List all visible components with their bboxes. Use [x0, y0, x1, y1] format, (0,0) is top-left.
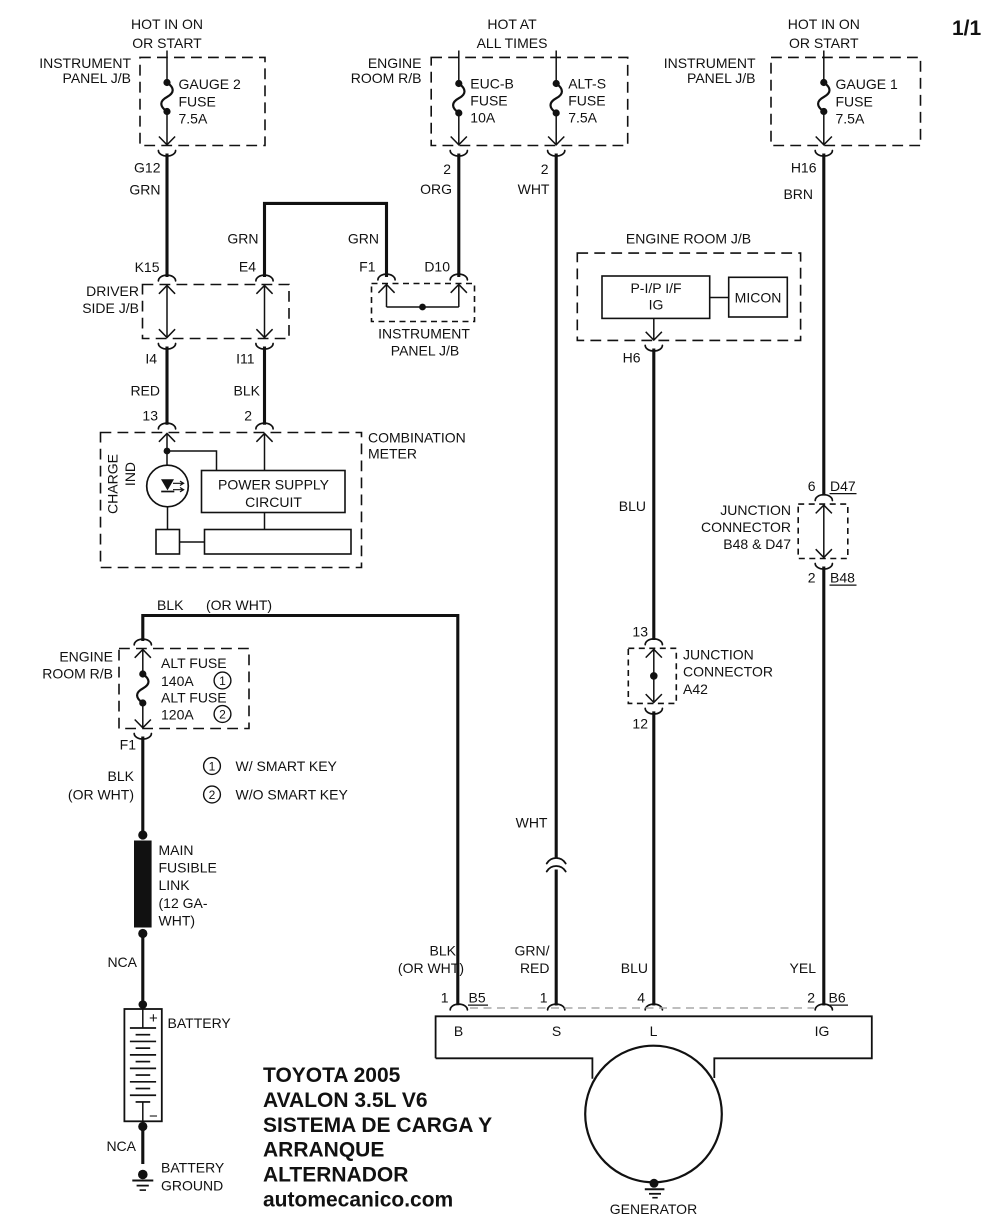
svg-text:COMBINATION: COMBINATION — [368, 430, 466, 446]
connector pin 2 B6 — [815, 1004, 832, 1010]
meter long block — [205, 530, 352, 555]
svg-text:1: 1 — [209, 759, 216, 773]
svg-text:RED: RED — [520, 960, 550, 976]
wire NCA battery to ground — [141, 1129, 144, 1164]
meter input arrow (pin 13) — [166, 434, 168, 466]
svg-text:120A: 120A — [161, 707, 194, 723]
connector pin 6 D47 — [815, 495, 832, 501]
connector G12 — [158, 151, 175, 157]
svg-text:12: 12 — [632, 716, 648, 732]
svg-text:6: 6 — [808, 478, 816, 494]
svg-text:B5: B5 — [469, 990, 486, 1006]
connector pin 2 (EUC-B) — [450, 151, 467, 157]
svg-text:HOT IN ON: HOT IN ON — [131, 16, 203, 32]
svg-text:1: 1 — [540, 990, 548, 1006]
svg-text:2: 2 — [209, 788, 216, 802]
connector boundary (gray dashed) — [470, 1007, 814, 1009]
wire GRN/RED to generator S — [555, 870, 558, 1006]
connector H16 — [815, 151, 832, 157]
svg-text:WHT: WHT — [516, 815, 548, 831]
battery ground — [138, 1170, 148, 1180]
svg-text:DRIVER: DRIVER — [86, 283, 139, 299]
svg-text:GRN: GRN — [348, 230, 379, 246]
svg-text:1: 1 — [219, 674, 226, 688]
connector pin 13 A42 — [645, 639, 662, 645]
block MICON — [729, 277, 788, 317]
connector pin 2 (meter) — [256, 423, 273, 429]
wire power supply to bottom block — [264, 513, 266, 530]
svg-text:13: 13 — [632, 624, 648, 640]
svg-text:PANEL J/B: PANEL J/B — [63, 70, 131, 86]
svg-text:GROUND: GROUND — [161, 1178, 223, 1194]
connector pin 12 A42 — [645, 708, 662, 714]
svg-text:MAIN: MAIN — [159, 842, 194, 858]
fuse GAUGE 2 7.5A — [166, 51, 168, 81]
svg-text:I11: I11 — [236, 351, 255, 367]
connector F1 (ALT fuse bottom) — [134, 734, 151, 740]
wire between P-I/P and MICON — [710, 297, 729, 299]
wire IG output to H6 — [653, 318, 655, 340]
svg-text:IND: IND — [122, 462, 138, 486]
svg-text:2: 2 — [219, 707, 226, 721]
wire BLK I11 to combination meter — [263, 347, 266, 425]
svg-text:METER: METER — [368, 446, 417, 462]
svg-text:JUNCTION: JUNCTION — [683, 647, 754, 663]
svg-text:NCA: NCA — [106, 1138, 136, 1154]
svg-text:B6: B6 — [829, 990, 846, 1006]
wire BRN H16 to D47 — [822, 154, 825, 496]
legend 1 W/ SMART KEY — [204, 758, 221, 775]
battery — [139, 1000, 148, 1009]
svg-text:INSTRUMENT: INSTRUMENT — [378, 326, 470, 342]
svg-text:MICON: MICON — [735, 290, 782, 306]
svg-text:E4: E4 — [239, 259, 256, 275]
instrument panel J/B box (top left) — [140, 57, 265, 145]
svg-text:A42: A42 — [683, 681, 708, 697]
wire BLU H6 to A42 — [652, 349, 655, 641]
svg-text:SISTEMA DE CARGA Y: SISTEMA DE CARGA Y — [263, 1114, 492, 1137]
svg-text:I4: I4 — [145, 351, 157, 367]
svg-text:GRN/: GRN/ — [515, 943, 550, 959]
svg-text:10A: 10A — [470, 110, 496, 126]
connector pin 13 (meter) — [158, 423, 175, 429]
svg-text:P-I/P I/F: P-I/P I/F — [630, 280, 681, 296]
svg-text:NCA: NCA — [107, 954, 137, 970]
svg-text:BLK: BLK — [430, 943, 457, 959]
svg-text:F1: F1 — [120, 737, 137, 753]
wire NCA fusible link to battery — [141, 938, 144, 1001]
svg-text:BLK: BLK — [108, 768, 135, 784]
connector E4 — [256, 275, 273, 281]
svg-text:GENERATOR: GENERATOR — [610, 1201, 697, 1217]
svg-text:ROOM R/B: ROOM R/B — [42, 666, 113, 682]
junction connector B48 & D47 box — [798, 504, 848, 558]
svg-text:1: 1 — [441, 989, 449, 1005]
meter input arrow (pin 2) — [264, 434, 266, 471]
svg-text:(12 GA-: (12 GA- — [159, 895, 208, 911]
fuse ALT 140A/120A — [135, 650, 151, 658]
generator terminal box — [436, 1016, 872, 1079]
wire BRN-YEL B48 to generator IG — [822, 567, 825, 1006]
svg-text:GRN: GRN — [227, 230, 258, 246]
pass-through arrow D47-B48 — [823, 506, 825, 556]
svg-text:EUC-B: EUC-B — [470, 76, 514, 92]
engine room J/B box — [577, 253, 800, 340]
wire small block to long block — [180, 541, 205, 543]
combination meter box — [101, 433, 362, 568]
svg-text:ENGINE: ENGINE — [368, 55, 422, 71]
connector pin 1 B5 — [450, 1004, 467, 1010]
charge indicator LED — [147, 465, 189, 507]
svg-text:7.5A: 7.5A — [568, 110, 597, 126]
svg-text:−: − — [149, 1108, 158, 1125]
fuse GAUGE 1 7.5A — [823, 51, 825, 81]
svg-text:BLU: BLU — [621, 960, 648, 976]
connector pin 2 (ALT-S) — [548, 151, 565, 157]
internal bus F1-D10 with junction — [386, 285, 388, 308]
svg-text:G12: G12 — [134, 160, 161, 176]
svg-text:BATTERY: BATTERY — [168, 1015, 232, 1031]
wire WHT upper segment — [555, 154, 558, 859]
engine room R/B box (ALT fuse) — [119, 649, 249, 729]
svg-text:WHT): WHT) — [159, 913, 196, 929]
svg-text:7.5A: 7.5A — [179, 111, 208, 127]
svg-text:(OR WHT): (OR WHT) — [68, 787, 134, 803]
svg-text:F1: F1 — [359, 259, 376, 275]
main fusible link — [138, 830, 147, 839]
svg-text:CONNECTOR: CONNECTOR — [683, 664, 773, 680]
svg-text:POWER SUPPLY: POWER SUPPLY — [218, 477, 330, 493]
generator ground — [650, 1179, 659, 1188]
svg-text:BLK: BLK — [157, 597, 184, 613]
generator body circle — [585, 1046, 722, 1183]
connector I11 — [256, 344, 273, 350]
wire RED I4 to combination meter — [165, 347, 168, 425]
wire GRN G12 to K15 — [165, 154, 168, 278]
connector pin 1 (S) — [548, 1004, 565, 1010]
fuse EUC-B 10A — [458, 51, 460, 81]
svg-text:IG: IG — [649, 297, 664, 313]
svg-text:(OR WHT): (OR WHT) — [398, 960, 464, 976]
svg-text:CIRCUIT: CIRCUIT — [245, 494, 302, 510]
svg-text:INSTRUMENT: INSTRUMENT — [39, 55, 131, 71]
connector F1 (instrument panel) — [378, 274, 395, 280]
svg-text:FUSE: FUSE — [470, 93, 507, 109]
svg-text:B48 & D47: B48 & D47 — [723, 536, 791, 552]
svg-text:ARRANQUE: ARRANQUE — [263, 1139, 384, 1162]
instrument panel J/B box (top right) — [771, 57, 921, 145]
svg-text:D10: D10 — [424, 259, 450, 275]
svg-text:CONNECTOR: CONNECTOR — [701, 519, 791, 535]
svg-text:+: + — [149, 1010, 158, 1027]
svg-text:2: 2 — [808, 570, 816, 586]
svg-text:BRN: BRN — [783, 186, 813, 202]
svg-text:140A: 140A — [161, 673, 194, 689]
connector K15 — [158, 275, 175, 281]
instrument panel J/B box (small) — [372, 284, 475, 322]
svg-text:(OR WHT): (OR WHT) — [206, 597, 272, 613]
block P-I/P I/F IG — [602, 276, 710, 318]
svg-text:HOT AT: HOT AT — [487, 16, 537, 32]
svg-text:HOT IN ON: HOT IN ON — [788, 16, 860, 32]
svg-text:AVALON 3.5L V6: AVALON 3.5L V6 — [263, 1089, 428, 1112]
svg-text:GAUGE 2: GAUGE 2 — [179, 76, 241, 92]
wire BLK (OR WHT) bus — [143, 616, 458, 1006]
svg-text:ALTERNADOR: ALTERNADOR — [263, 1164, 408, 1187]
power supply circuit box — [202, 471, 346, 513]
wire LED to resistor block — [167, 507, 169, 530]
svg-text:H6: H6 — [623, 350, 641, 366]
connector I4 — [158, 344, 175, 350]
svg-text:PANEL J/B: PANEL J/B — [391, 343, 459, 359]
svg-text:IG: IG — [815, 1023, 830, 1039]
connector pin 2 B48 — [815, 564, 832, 570]
connector H6 — [645, 345, 662, 351]
svg-text:S: S — [552, 1023, 561, 1039]
svg-text:W/ SMART KEY: W/ SMART KEY — [236, 758, 338, 774]
svg-text:PANEL J/B: PANEL J/B — [687, 70, 755, 86]
svg-text:ROOM R/B: ROOM R/B — [351, 70, 422, 86]
svg-text:2: 2 — [244, 408, 252, 424]
pass-through arrow A42 with junction dot — [653, 650, 655, 701]
wire GRN jumper E4 to F1 — [265, 203, 387, 277]
connector pin 4 (L) — [645, 1004, 662, 1010]
svg-text:W/O SMART KEY: W/O SMART KEY — [236, 787, 349, 803]
svg-text:INSTRUMENT: INSTRUMENT — [664, 55, 756, 71]
svg-text:automecanico.com: automecanico.com — [263, 1189, 453, 1212]
svg-text:ALT-S: ALT-S — [568, 76, 606, 92]
svg-text:13: 13 — [142, 408, 158, 424]
svg-text:OR START: OR START — [789, 35, 859, 51]
svg-text:BATTERY: BATTERY — [161, 1160, 225, 1176]
svg-text:B48: B48 — [830, 570, 855, 586]
svg-text:7.5A: 7.5A — [836, 111, 865, 127]
driver side J/B box — [143, 285, 290, 339]
svg-text:SIDE J/B: SIDE J/B — [82, 300, 139, 316]
wire ORG to D10 — [457, 154, 460, 278]
svg-text:FUSE: FUSE — [568, 93, 605, 109]
wire BLK F1 to fusible link — [141, 737, 144, 832]
svg-text:GAUGE 1: GAUGE 1 — [836, 76, 898, 92]
svg-text:D47: D47 — [830, 478, 856, 494]
svg-text:4: 4 — [637, 990, 645, 1006]
svg-text:ALT FUSE: ALT FUSE — [161, 690, 227, 706]
connector (ALT fuse top) — [134, 639, 151, 645]
svg-text:2: 2 — [541, 161, 549, 177]
svg-text:B: B — [454, 1023, 463, 1039]
legend 2 W/O SMART KEY — [204, 786, 221, 803]
svg-text:2: 2 — [807, 990, 815, 1006]
svg-text:K15: K15 — [135, 259, 160, 275]
svg-text:LINK: LINK — [159, 877, 191, 893]
svg-text:TOYOTA 2005: TOYOTA 2005 — [263, 1064, 401, 1087]
svg-text:RED: RED — [130, 383, 160, 399]
pass-through arrow K15-I4 — [166, 287, 168, 337]
wire BLU A42 to generator L — [652, 711, 655, 1005]
svg-text:H16: H16 — [791, 160, 817, 176]
pass-through arrow E4-I11 — [264, 287, 266, 337]
connector D10 — [450, 274, 467, 280]
fuse ALT-S 7.5A — [555, 51, 557, 81]
svg-text:WHT: WHT — [518, 181, 550, 197]
svg-text:FUSE: FUSE — [179, 93, 216, 109]
svg-text:FUSE: FUSE — [836, 93, 873, 109]
svg-text:ALT FUSE: ALT FUSE — [161, 655, 227, 671]
svg-text:L: L — [650, 1023, 658, 1039]
svg-text:OR START: OR START — [132, 35, 202, 51]
meter small block — [156, 530, 180, 555]
svg-text:CHARGE: CHARGE — [105, 454, 121, 514]
svg-text:FUSIBLE: FUSIBLE — [159, 860, 217, 876]
svg-text:ENGINE: ENGINE — [59, 649, 113, 665]
svg-text:GRN: GRN — [129, 182, 160, 198]
internal branch to power supply circuit — [164, 448, 171, 455]
svg-text:YEL: YEL — [790, 960, 817, 976]
svg-text:BLK: BLK — [234, 383, 261, 399]
junction connector A42 box — [628, 648, 676, 703]
svg-text:ALL TIMES: ALL TIMES — [477, 35, 548, 51]
svg-text:2: 2 — [443, 161, 451, 177]
svg-text:1/1: 1/1 — [952, 17, 982, 40]
wire break (splice) on WHT wire — [547, 858, 566, 864]
svg-text:ENGINE ROOM J/B: ENGINE ROOM J/B — [626, 231, 751, 247]
engine room R/B box (top) — [431, 57, 628, 145]
svg-text:BLU: BLU — [619, 498, 646, 514]
svg-text:JUNCTION: JUNCTION — [720, 502, 791, 518]
svg-text:ORG: ORG — [420, 181, 452, 197]
